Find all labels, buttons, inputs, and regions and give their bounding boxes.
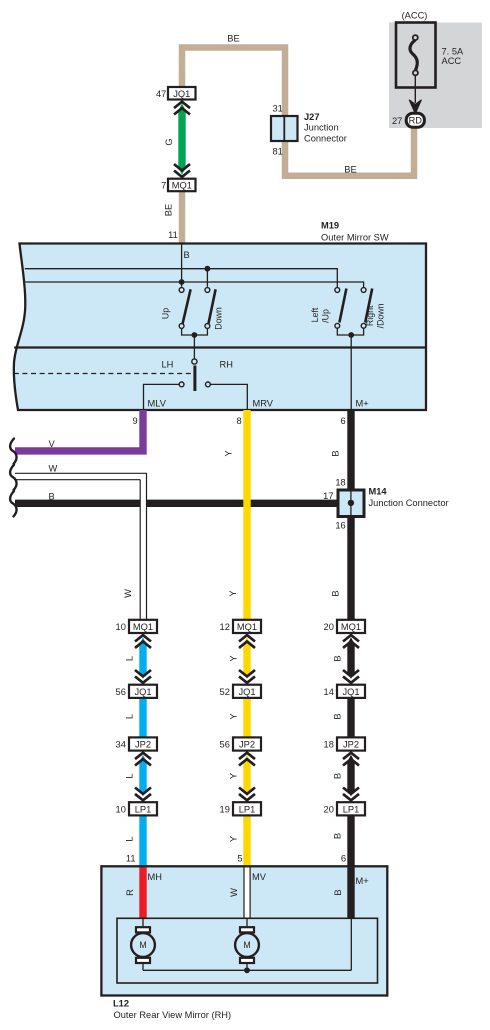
- pin 81: [273, 147, 283, 157]
- svg-text:14: 14: [324, 687, 334, 697]
- svg-text:MQ1: MQ1: [172, 181, 192, 191]
- label Y gap1: [229, 655, 239, 661]
- svg-text:18: 18: [335, 478, 345, 488]
- svg-text:10: 10: [116, 804, 126, 814]
- pin 27: [392, 116, 402, 126]
- fuse block background: [389, 23, 482, 129]
- wire down-switch lead: [206, 269, 208, 287]
- svg-text:MQ1: MQ1: [237, 622, 257, 632]
- pin 11 bottom: [126, 854, 136, 864]
- svg-text:Outer Rear View Mirror (RH): Outer Rear View Mirror (RH): [114, 1010, 232, 1020]
- node motor bus junction: [244, 967, 250, 973]
- wire L blue JQ1-JP2: [139, 698, 146, 739]
- svg-text:56: 56: [116, 687, 126, 697]
- label G: [164, 138, 174, 145]
- svg-text:47: 47: [156, 89, 166, 99]
- switch Left/Up: [335, 288, 347, 329]
- svg-text:M+: M+: [356, 876, 369, 886]
- wire bus lower: [25, 282, 363, 288]
- svg-text:B: B: [331, 450, 341, 456]
- wire Y yellow vertical: [243, 410, 250, 620]
- switch Right/Down: [361, 288, 372, 329]
- svg-text:/Down: /Down: [375, 303, 385, 328]
- wire B black inside: [347, 868, 354, 919]
- wire MLV lead: [144, 384, 180, 410]
- label MLV: [148, 399, 167, 409]
- svg-text:81: 81: [273, 147, 283, 157]
- pin 9: [133, 416, 138, 426]
- mirror L12 body: [101, 866, 387, 995]
- svg-text:W: W: [49, 464, 58, 474]
- label B horizontal: [49, 492, 55, 502]
- wire BE from MQ1 to M19 pin 11: [179, 191, 186, 244]
- label Down: [214, 307, 224, 330]
- pin 34: [116, 740, 126, 750]
- label L gap4: [125, 836, 135, 841]
- connector JQ1 mid: [233, 685, 261, 698]
- connector JP2 right: [337, 737, 365, 750]
- pin 31: [273, 104, 283, 114]
- wire Y yellow JQ1-JP2: [243, 698, 250, 739]
- pin 10: [116, 622, 126, 632]
- svg-text:R: R: [125, 889, 135, 896]
- wire up/down common: [182, 328, 208, 359]
- pin 7: [161, 181, 166, 191]
- svg-text:M: M: [243, 940, 250, 950]
- pin 56 mid: [220, 740, 230, 750]
- svg-text:B: B: [333, 889, 343, 895]
- svg-text:B: B: [184, 250, 190, 260]
- label Y gap4: [229, 836, 239, 842]
- label Right/Down: [365, 303, 385, 328]
- pin 18 right: [324, 740, 334, 750]
- svg-text:JQ1: JQ1: [134, 687, 151, 697]
- switch Up: [179, 288, 190, 329]
- connector arrows above LP1 row: [135, 788, 359, 801]
- connector MQ1 left: [129, 620, 157, 633]
- svg-text:Right: Right: [365, 305, 375, 326]
- svg-text:LH: LH: [162, 360, 174, 370]
- label Y mid: [228, 590, 238, 596]
- svg-text:16: 16: [335, 521, 345, 531]
- svg-text:V: V: [49, 439, 56, 449]
- node up/down junction: [192, 332, 198, 338]
- node RD (system relay): [406, 113, 424, 127]
- svg-text:20: 20: [324, 622, 334, 632]
- connector arrows below MQ1 row: [135, 635, 359, 648]
- label Y upper: [224, 450, 234, 456]
- wire Y yellow below LP1: [243, 815, 250, 867]
- switch Down: [205, 288, 216, 329]
- pin 5 bottom: [237, 854, 242, 864]
- svg-text:Connector: Connector: [304, 133, 347, 143]
- label M+ inside: [356, 876, 369, 886]
- label M+: [356, 399, 369, 409]
- svg-text:Left: Left: [310, 307, 320, 322]
- wire left/right common to M+: [337, 328, 363, 410]
- svg-text:Y: Y: [229, 773, 239, 779]
- label (ACC): [402, 11, 428, 21]
- svg-text:M19: M19: [321, 221, 339, 231]
- label MH: [148, 872, 162, 882]
- wire B black MQ1-JQ1: [347, 637, 354, 679]
- svg-text:MV: MV: [252, 872, 267, 882]
- node junction B: [179, 279, 185, 285]
- svg-text:RH: RH: [220, 360, 233, 370]
- svg-text:Y: Y: [228, 590, 238, 596]
- label B gap2: [333, 713, 343, 719]
- continuation squiggle V: [10, 439, 16, 464]
- svg-text:18: 18: [324, 740, 334, 750]
- label L gap2: [125, 714, 135, 719]
- svg-text:MLV: MLV: [148, 399, 167, 409]
- svg-text:Outer Mirror SW: Outer Mirror SW: [321, 233, 389, 243]
- wire BE from JQ1 to J27 top: [182, 48, 285, 117]
- pin 16: [335, 521, 345, 531]
- svg-text:L: L: [125, 656, 135, 661]
- svg-text:LP1: LP1: [239, 804, 256, 814]
- svg-text:MH: MH: [148, 872, 162, 882]
- pin 17: [323, 491, 333, 501]
- label MRV: [253, 399, 274, 409]
- connector JP2 mid: [233, 737, 261, 750]
- svg-text:9: 9: [133, 416, 138, 426]
- svg-text:27: 27: [392, 116, 402, 126]
- svg-text:Y: Y: [229, 713, 239, 719]
- svg-text:BE: BE: [227, 34, 239, 44]
- label B upper: [331, 450, 341, 456]
- svg-text:6: 6: [341, 416, 346, 426]
- pin 18: [335, 478, 345, 488]
- fuse 7.5A ACC box: [396, 23, 436, 88]
- label V: [49, 439, 56, 449]
- pin 52: [220, 687, 230, 697]
- wire Y yellow JP2-LP1: [243, 755, 250, 797]
- svg-text:Junction Connector: Junction Connector: [369, 498, 449, 508]
- pin 11: [168, 230, 178, 240]
- connector JQ1 left: [129, 685, 157, 698]
- connector MQ1 top: [168, 179, 196, 192]
- svg-text:11: 11: [168, 230, 178, 240]
- wire motor MH stub: [142, 918, 144, 927]
- svg-text:RD: RD: [409, 116, 423, 126]
- svg-text:52: 52: [220, 687, 230, 697]
- label L gap1: [125, 656, 135, 661]
- connector LP1 mid: [233, 802, 261, 815]
- label Y gap3: [229, 773, 239, 779]
- wire B black horizontal: [15, 500, 338, 507]
- svg-text:L: L: [125, 836, 135, 841]
- svg-text:7. 5A: 7. 5A: [442, 47, 465, 57]
- svg-text:JP2: JP2: [343, 740, 359, 750]
- svg-text:5: 5: [237, 854, 242, 864]
- continuation squiggle B: [10, 491, 16, 516]
- pin 20: [324, 622, 334, 632]
- label MV: [252, 872, 267, 882]
- svg-text:B: B: [333, 833, 343, 839]
- label W inside: [229, 888, 239, 897]
- pin 6 bottom: [341, 854, 346, 864]
- wire V purple: [15, 410, 143, 451]
- label 7.5A ACC: [442, 47, 465, 67]
- svg-text:ACC: ACC: [442, 56, 462, 66]
- label BE lower: [344, 165, 356, 175]
- svg-text:BE: BE: [344, 165, 356, 175]
- wire L blue below LP1: [139, 815, 146, 867]
- label Left/Up: [310, 307, 331, 323]
- wire W white horizontal+vertical: [15, 473, 147, 620]
- pin 6: [341, 416, 346, 426]
- junction connector J27: [271, 116, 298, 141]
- M19 section divider: [14, 346, 426, 348]
- wire Y yellow MQ1-JQ1: [243, 637, 250, 679]
- svg-text:JQ1: JQ1: [238, 687, 255, 697]
- wire L blue JP2-LP1: [139, 755, 146, 797]
- svg-text:8: 8: [237, 416, 242, 426]
- wire motor common bus: [143, 918, 351, 970]
- svg-text:/Up: /Up: [321, 309, 331, 323]
- label W mid: [123, 589, 133, 598]
- connector JP2 left: [129, 737, 157, 750]
- svg-text:G: G: [164, 138, 174, 145]
- label BE top: [227, 34, 239, 44]
- dashed mechanical link: [14, 373, 191, 375]
- svg-text:LP1: LP1: [135, 804, 152, 814]
- label L12 Outer Rear View Mirror: [113, 998, 231, 1020]
- svg-text:19: 19: [220, 804, 230, 814]
- pin 12: [220, 622, 230, 632]
- label B gap4: [333, 833, 343, 839]
- svg-text:L: L: [125, 714, 135, 719]
- wire B black JP2-LP1: [347, 755, 354, 797]
- motor MV: [235, 927, 259, 963]
- svg-text:W: W: [229, 888, 239, 897]
- connector JQ1 right: [337, 685, 365, 698]
- wire MRV lead: [210, 384, 247, 410]
- svg-text:J27: J27: [304, 112, 320, 122]
- mirror inner frame: [117, 918, 378, 983]
- node left/right junction: [348, 332, 354, 338]
- svg-text:56: 56: [220, 740, 230, 750]
- wire B black vertical M+: [347, 410, 354, 620]
- connector LP1 right: [337, 802, 365, 815]
- svg-text:B: B: [49, 492, 55, 502]
- junction connector M14: [338, 490, 364, 517]
- wire pin11 lead: [181, 244, 183, 287]
- svg-text:MQ1: MQ1: [341, 622, 361, 632]
- label B: [184, 250, 190, 260]
- svg-text:17: 17: [323, 491, 333, 501]
- wire motor MV stub: [246, 918, 248, 927]
- svg-text:6: 6: [341, 854, 346, 864]
- svg-text:20: 20: [324, 804, 334, 814]
- label Up: [161, 308, 171, 319]
- svg-text:LP1: LP1: [343, 804, 360, 814]
- svg-text:BE: BE: [164, 204, 174, 216]
- svg-text:B: B: [333, 655, 343, 661]
- label RH: [220, 360, 233, 370]
- wire L blue MQ1-JQ1: [139, 637, 146, 679]
- svg-text:L12: L12: [113, 998, 129, 1008]
- wire B black JQ1-JP2: [347, 698, 354, 739]
- connector arrows below JQ1: [174, 102, 190, 115]
- label L gap3: [125, 773, 135, 778]
- pin 8: [237, 416, 242, 426]
- arrow from fuse to RD: [409, 76, 421, 114]
- label J27 Junction Connector: [304, 112, 347, 144]
- svg-text:B: B: [333, 713, 343, 719]
- svg-text:JQ1: JQ1: [342, 687, 359, 697]
- svg-text:Junction: Junction: [304, 123, 339, 133]
- svg-text:M: M: [139, 940, 146, 950]
- svg-text:7: 7: [161, 181, 166, 191]
- svg-text:JP2: JP2: [135, 740, 151, 750]
- continuation squiggle W: [10, 465, 16, 490]
- label W: [49, 464, 58, 474]
- wire bus upper: [25, 269, 338, 288]
- label LH: [162, 360, 174, 370]
- svg-text:34: 34: [116, 740, 126, 750]
- switch M19 body: [14, 244, 426, 411]
- connector MQ1 right: [337, 620, 365, 633]
- label M19 Outer Mirror SW: [321, 221, 389, 243]
- svg-text:Down: Down: [214, 307, 224, 330]
- svg-text:W: W: [123, 589, 133, 598]
- svg-text:11: 11: [126, 854, 136, 864]
- wire R red inside: [139, 868, 146, 919]
- pin 19: [220, 804, 230, 814]
- label Y gap2: [229, 713, 239, 719]
- label BE vertical: [164, 204, 174, 216]
- wire BE from J27 pin 81 to RD: [285, 126, 414, 176]
- svg-text:M14: M14: [369, 487, 388, 497]
- wire B black below LP1: [347, 815, 354, 867]
- svg-text:B: B: [333, 773, 343, 779]
- motor MH: [131, 927, 155, 963]
- label B gap3: [333, 773, 343, 779]
- connector MQ1 mid: [233, 620, 261, 633]
- svg-text:Y: Y: [229, 836, 239, 842]
- pin 20 lower: [324, 804, 334, 814]
- connector LP1 left: [129, 802, 157, 815]
- label R: [125, 889, 135, 896]
- connector arrows above JQ1 row: [135, 670, 359, 683]
- svg-text:12: 12: [220, 622, 230, 632]
- svg-text:10: 10: [116, 622, 126, 632]
- pin 10 lower: [116, 804, 126, 814]
- fuse element: [410, 35, 418, 75]
- pin 56: [116, 687, 126, 697]
- pin 14: [324, 687, 334, 697]
- svg-text:M+: M+: [356, 399, 369, 409]
- svg-text:Y: Y: [224, 450, 234, 456]
- svg-text:Up: Up: [161, 308, 171, 319]
- connector arrows above MQ1: [174, 164, 190, 177]
- pin 47: [156, 89, 166, 99]
- svg-text:31: 31: [273, 104, 283, 114]
- label B mid: [331, 590, 341, 596]
- wire G between JQ1 and MQ1: [178, 103, 185, 174]
- svg-text:Y: Y: [229, 655, 239, 661]
- label M14 Junction Connector: [369, 487, 449, 509]
- svg-text:L: L: [125, 773, 135, 778]
- svg-text:B: B: [331, 590, 341, 596]
- wire W white inside: [244, 868, 250, 919]
- node junction upper bus: [205, 266, 211, 272]
- connector arrows below JP2 row: [135, 753, 359, 766]
- label B gap1: [333, 655, 343, 661]
- svg-text:JQ1: JQ1: [173, 89, 190, 99]
- svg-text:MRV: MRV: [253, 399, 274, 409]
- svg-text:(ACC): (ACC): [402, 11, 428, 21]
- svg-text:JP2: JP2: [239, 740, 255, 750]
- switch LH/RH selector: [179, 359, 210, 391]
- connector JQ1 top: [168, 87, 196, 100]
- svg-text:MQ1: MQ1: [133, 622, 153, 632]
- label B inside: [333, 889, 343, 895]
